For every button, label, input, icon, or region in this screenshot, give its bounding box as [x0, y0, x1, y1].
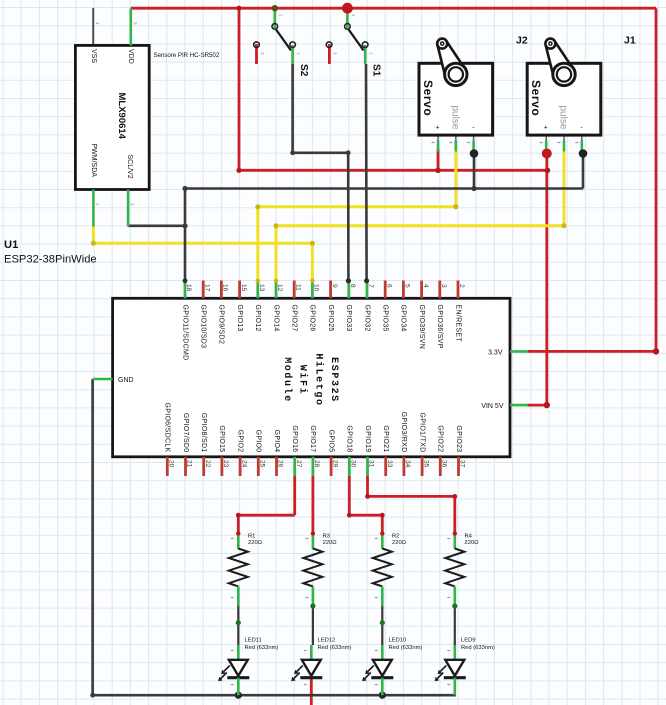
wire black GND bus drop to pin18 — [184, 189, 187, 281]
svg-text:SCL/V2: SCL/V2 — [126, 155, 133, 179]
pin GND (left side) — [93, 378, 113, 381]
svg-text:LED9: LED9 — [461, 638, 476, 644]
node dots on wired pins — [183, 278, 188, 283]
svg-text:220Ω: 220Ω — [248, 540, 263, 546]
R2 tiny terminal marks — [375, 538, 378, 540]
svg-text:VDD: VDD — [127, 49, 134, 64]
wire black ESP32 GND down left side — [91, 379, 94, 695]
wire red unused throw stub of S2 — [255, 44, 258, 64]
wire red right-edge vertical to 3.3V — [655, 8, 658, 351]
svg-text:LED12: LED12 — [318, 638, 336, 644]
pin 25 GPIO0 — [257, 457, 260, 476]
svg-text:GPIO33: GPIO33 — [345, 305, 352, 332]
LED LED10 Red 633nm — [381, 645, 384, 661]
wire red VIN 5V horizontal — [527, 404, 547, 407]
svg-text:GPIO18: GPIO18 — [346, 425, 353, 452]
LED10 triangle — [373, 660, 392, 676]
wire red horizontal y=170 to servo J2 + and J1 + — [239, 169, 547, 172]
svg-text:4: 4 — [422, 284, 429, 288]
svg-text:Sensore PIR HC-SR502: Sensore PIR HC-SR502 — [154, 52, 220, 59]
pin 3 GPIO36/SVP — [438, 281, 441, 299]
svg-text:VIN 5V: VIN 5V — [481, 403, 504, 410]
svg-text:GPIO16: GPIO16 — [291, 425, 298, 452]
wire yellow MLX PWM/SDA to GPIO26 pin10 — [92, 226, 95, 244]
svg-text:R2: R2 — [392, 534, 399, 540]
svg-text:Red (633nm): Red (633nm) — [461, 645, 495, 651]
svg-text:GPIO27: GPIO27 — [291, 305, 298, 332]
wire red GPIO18 pin30 to R2 — [348, 476, 351, 515]
servo J2 horn tip hole — [437, 39, 447, 49]
junction red rail x=239 — [236, 6, 241, 11]
pin 11 GPIO27 — [293, 281, 296, 299]
pin 22 GPIO8/SD1 — [202, 457, 205, 476]
switch S2 lever — [276, 30, 291, 51]
junction S2 on rail — [272, 5, 278, 11]
wire yellow GPIO12 pin13 to servo J2 pulse — [256, 207, 259, 281]
LED LED11 Red 633nm — [237, 645, 240, 661]
wire black J2 - drop — [473, 151, 476, 189]
svg-text:GPIO23: GPIO23 — [455, 425, 462, 452]
wire red LED12 cathode to sheet edge — [310, 678, 313, 705]
svg-text:13: 13 — [258, 284, 265, 292]
wire black MLX SCL/V2 to GND net — [128, 225, 185, 228]
svg-text:GPIO8/SD1: GPIO8/SD1 — [200, 413, 207, 453]
svg-text:33: 33 — [386, 460, 393, 468]
MLX90614 pin SCL/V2 lead — [127, 190, 130, 227]
wire black bottom ground rail — [93, 694, 456, 697]
pin 36 GPIO22 — [439, 457, 442, 476]
LED12 triangle — [302, 660, 321, 676]
wire red J1 + / VIN 5V vertical — [545, 154, 548, 406]
svg-text:GPIO5: GPIO5 — [327, 430, 334, 453]
switch S1 unused terminal — [326, 42, 332, 48]
junction J1 - terminal — [579, 149, 588, 158]
switch S1 lever — [349, 30, 364, 51]
svg-text:2: 2 — [458, 284, 465, 288]
svg-text:37: 37 — [459, 460, 466, 468]
svg-text:35: 35 — [422, 460, 429, 468]
LED9 cathode stub — [453, 678, 456, 696]
junction red corner 547,170 — [545, 168, 551, 174]
R4 tiny terminal marks — [447, 538, 450, 540]
pin 31 GPIO19 — [366, 457, 369, 476]
svg-text:GPIO3/RXD: GPIO3/RXD — [400, 412, 407, 453]
pin 10 GPIO26 — [311, 281, 314, 299]
resistor R2 220ohm — [381, 534, 384, 550]
wire black J1 - drop — [582, 151, 585, 189]
svg-text:Red (633nm): Red (633nm) — [245, 645, 279, 651]
pin 26 GPIO4 — [275, 457, 278, 476]
svg-text:R1: R1 — [248, 534, 255, 540]
svg-text:LED11: LED11 — [245, 638, 262, 644]
svg-text:8: 8 — [349, 284, 356, 288]
svg-text:26: 26 — [277, 460, 284, 468]
MLX90614 pin VDD (green, to 3.3V rail) — [130, 8, 133, 45]
LED12 cathode bar — [300, 676, 322, 679]
pin 21 GPIO7/SD0 — [184, 457, 187, 476]
svg-text:+: + — [544, 125, 548, 132]
junction yellow bendpoints — [91, 241, 96, 246]
svg-text:MLX90614: MLX90614 — [116, 93, 127, 140]
svg-text:23: 23 — [222, 460, 229, 468]
LED10 emission arrows — [365, 666, 374, 679]
switch S1 throw stub (green) — [364, 45, 367, 64]
svg-text:220Ω: 220Ω — [465, 540, 480, 546]
LED9 cathode bar — [444, 676, 466, 679]
svg-text:R4: R4 — [465, 534, 473, 540]
servo J2 body — [419, 63, 493, 135]
svg-text:GPIO35: GPIO35 — [382, 305, 389, 332]
pin 28 GPIO17 — [311, 457, 314, 476]
svg-text:GPIO14: GPIO14 — [272, 305, 279, 332]
svg-text:25: 25 — [259, 460, 266, 468]
svg-text:GPIO12: GPIO12 — [254, 305, 261, 332]
svg-text:GPIO39/SVN: GPIO39/SVN — [418, 305, 425, 350]
svg-text:GPIO11/SDCMD: GPIO11/SDCMD — [181, 305, 188, 361]
LED11 tiny terminal marks — [231, 650, 234, 652]
pin 3.3V (right side) — [510, 350, 528, 353]
pin 15 GPIO13 — [238, 281, 241, 299]
svg-text:3.3V: 3.3V — [488, 350, 503, 357]
svg-text:11: 11 — [294, 284, 301, 291]
switch S1 top stub (green) — [346, 8, 349, 28]
svg-text:Red (633nm): Red (633nm) — [318, 645, 352, 651]
svg-text:pulse: pulse — [558, 106, 569, 130]
svg-text:5: 5 — [404, 284, 411, 288]
svg-text:220Ω: 220Ω — [392, 540, 407, 546]
svg-text:GPIO7/SD0: GPIO7/SD0 — [182, 413, 189, 453]
LED LED9 Red 633nm — [453, 645, 456, 661]
LED9 triangle — [445, 660, 464, 676]
pin 8 GPIO33 — [347, 281, 350, 299]
servo J1 horn arm — [546, 42, 574, 79]
svg-text:27: 27 — [295, 460, 302, 468]
wire black switch S1 to GPIO32 pin7 — [365, 64, 368, 281]
svg-text:Servo: Servo — [529, 80, 543, 116]
svg-text:3: 3 — [440, 284, 447, 288]
svg-text:10: 10 — [313, 284, 320, 292]
LED11 cathode stub — [237, 678, 240, 696]
svg-text:GPIO9/SD2: GPIO9/SD2 — [218, 305, 225, 345]
switch S1 hinge terminal — [345, 24, 351, 30]
pin 30 GPIO18 — [348, 457, 351, 476]
LED11 cathode bar — [227, 676, 249, 679]
svg-text:31: 31 — [368, 460, 375, 468]
svg-text:R3: R3 — [323, 534, 330, 540]
junction red corner 3.3V right edge — [653, 348, 659, 354]
pin 13 GPIO12 — [256, 281, 259, 299]
svg-text:16: 16 — [222, 284, 229, 292]
svg-text:GPIO2: GPIO2 — [236, 430, 243, 453]
LED12 tiny terminal marks — [304, 650, 307, 652]
svg-text:EN/RESET: EN/RESET — [454, 305, 461, 343]
pin 9 GPIO25 — [329, 281, 332, 299]
svg-text:ESP32-38PinWide: ESP32-38PinWide — [4, 254, 97, 266]
svg-text:4: 4 — [95, 22, 100, 25]
pin 23 GPIO15 — [220, 457, 223, 476]
switch S2 throw stub (green) — [291, 45, 294, 64]
svg-text:GPIO0: GPIO0 — [255, 430, 262, 453]
LED9 tiny terminal marks — [447, 650, 450, 652]
svg-text:29: 29 — [331, 460, 338, 468]
wire red J2 + drop — [437, 149, 440, 170]
pin 35 GPIO1/TXD — [421, 457, 424, 476]
svg-text:GPIO15: GPIO15 — [218, 425, 225, 452]
svg-text:GPIO36/SVP: GPIO36/SVP — [436, 305, 443, 349]
svg-text:GPIO4: GPIO4 — [273, 430, 280, 453]
svg-text:+: + — [436, 125, 440, 132]
svg-text:LED10: LED10 — [389, 638, 407, 644]
servo J2 pin leads — [437, 135, 439, 141]
svg-text:20: 20 — [168, 460, 175, 468]
junction black dots — [182, 186, 187, 191]
svg-text:15: 15 — [240, 284, 247, 292]
servo J1 horn tip hole — [545, 39, 555, 49]
IC U1 ESP32-38PinWide body — [113, 298, 510, 457]
pin 27 GPIO16 — [293, 457, 296, 476]
svg-text:34: 34 — [404, 460, 411, 468]
svg-text:GPIO10/SD3: GPIO10/SD3 — [200, 305, 207, 349]
wire red unused throw stub of S1 — [328, 44, 331, 64]
wire red 3.3V pin horizontal — [527, 350, 656, 353]
svg-text:18: 18 — [185, 284, 192, 292]
wire red GPIO16 pin27 to R1 — [293, 476, 296, 515]
svg-text:GPIO17: GPIO17 — [309, 425, 316, 452]
svg-text:2: 2 — [95, 203, 100, 206]
svg-text:pulse: pulse — [449, 106, 460, 130]
servo J1 pin leads — [545, 135, 547, 141]
svg-text:S1: S1 — [371, 64, 382, 77]
wire red vertical from rail x=239 — [238, 8, 241, 170]
svg-text:220Ω: 220Ω — [323, 540, 338, 546]
junction J1 + terminal (big red) — [542, 149, 552, 159]
pin 7 GPIO32 — [366, 281, 369, 299]
pin 37 GPIO23 — [457, 457, 460, 476]
LED10 cathode stub — [381, 678, 384, 696]
sensor U? MLX90614 (Sensore PIR HC-SR502) body — [75, 45, 149, 189]
svg-text:J2: J2 — [516, 35, 528, 47]
MLX90614 pin PWM/SDA lead — [92, 190, 95, 227]
pin 34 GPIO3/RXD — [402, 457, 405, 476]
wire red GPIO17 pin28 to R3 — [311, 476, 314, 534]
svg-text:GND: GND — [118, 377, 134, 384]
junction red J2 + at y=170 — [435, 168, 441, 174]
LED11 emission arrows — [221, 666, 230, 679]
servo J2 horn arm — [438, 42, 466, 79]
svg-text:17: 17 — [203, 284, 210, 292]
wire red GPIO19 pin31 to R4 — [366, 476, 369, 496]
svg-text:1: 1 — [130, 203, 135, 206]
svg-text:GPIO1/TXD: GPIO1/TXD — [418, 412, 425, 452]
wire black MLX VSS stub (unconnected) — [92, 8, 94, 45]
svg-text:GPIO32: GPIO32 — [363, 305, 370, 332]
LED12 emission arrows — [294, 666, 303, 679]
LED LED12 Red 633nm — [310, 645, 313, 661]
servo J1 horn hub — [553, 63, 575, 85]
svg-text:GPIO21: GPIO21 — [382, 425, 389, 452]
switch S2 top stub (green) — [273, 8, 276, 28]
wire black switch S2 to GPIO33 pin8 — [291, 64, 294, 153]
pin 5 GPIO34 — [402, 281, 405, 299]
svg-text:GPIO34: GPIO34 — [400, 305, 407, 332]
pin 2 EN/RESET — [457, 281, 460, 299]
svg-text:GPIO22: GPIO22 — [437, 425, 444, 452]
LED10 tiny terminal marks — [375, 650, 378, 652]
servo J2 horn hub — [445, 63, 467, 85]
svg-text:U1: U1 — [4, 239, 18, 251]
svg-text:GPIO19: GPIO19 — [364, 425, 371, 452]
LED11 triangle — [229, 660, 248, 676]
svg-text:WiFi: WiFi — [297, 365, 309, 395]
R1 tiny terminal marks — [231, 538, 234, 540]
pin 6 GPIO35 — [384, 281, 387, 299]
switch S2 hinge terminal — [272, 24, 278, 30]
svg-text:HiLetgo: HiLetgo — [312, 353, 324, 406]
LED10 cathode bar — [371, 676, 393, 679]
switch S2 throw terminal — [290, 42, 296, 48]
svg-text:36: 36 — [441, 460, 448, 468]
svg-text:12: 12 — [276, 284, 283, 292]
R3 tiny terminal marks — [305, 538, 308, 540]
svg-text:Servo: Servo — [421, 80, 435, 116]
resistor R1 220ohm — [237, 534, 240, 550]
svg-text:9: 9 — [331, 284, 338, 288]
svg-text:21: 21 — [186, 460, 193, 468]
svg-text:24: 24 — [240, 460, 247, 468]
svg-text:ESP32S: ESP32S — [328, 357, 339, 403]
svg-text:J1: J1 — [624, 35, 636, 47]
pin 24 GPIO2 — [239, 457, 242, 476]
servo J2 tiny pin marks — [432, 142, 435, 144]
switch S2 unused terminal — [254, 42, 260, 48]
servo J1 tiny pin marks — [540, 142, 543, 144]
svg-text:GPIO26: GPIO26 — [309, 305, 316, 332]
svg-text:30: 30 — [350, 460, 357, 468]
svg-text:VSS: VSS — [90, 49, 97, 63]
junction J2 - terminal — [470, 149, 479, 158]
svg-text:Module: Module — [281, 357, 293, 403]
resistor R3 220ohm — [312, 534, 315, 550]
pin 33 GPIO21 — [384, 457, 387, 476]
pin 29 GPIO5 — [330, 457, 333, 476]
svg-text:6: 6 — [385, 284, 392, 288]
pin 16 GPIO9/SD2 — [220, 281, 223, 299]
junction red VIN 5V — [544, 402, 550, 408]
svg-text:PWM/SDA: PWM/SDA — [90, 144, 97, 178]
servo J1 body — [527, 63, 601, 135]
svg-text:GPIO13: GPIO13 — [236, 305, 243, 332]
svg-text:Red (633nm): Red (633nm) — [389, 645, 423, 651]
junction red corner 239,170 — [236, 168, 241, 173]
wire yellow GPIO14 pin12 to servo J1 pulse — [275, 226, 278, 281]
resistor R4 220ohm — [453, 534, 456, 550]
node dots between resistors and LEDs — [236, 620, 241, 625]
svg-text:28: 28 — [313, 460, 320, 468]
wire red 3.3V top rail — [131, 7, 656, 10]
junction S1 on rail (big) — [342, 3, 353, 14]
switch S1 throw terminal — [362, 42, 368, 48]
pin 20 GPIO6/SDCLK — [166, 457, 169, 476]
svg-text:S2: S2 — [298, 64, 309, 77]
pin 17 GPIO10/SD3 — [202, 281, 205, 299]
pin 12 GPIO14 — [275, 281, 278, 299]
junction red bends of LED nets — [236, 513, 241, 518]
wire black servo ground bus y=188.5 — [185, 187, 583, 190]
wire black resistor-to-LED links — [237, 605, 239, 650]
LED9 emission arrows — [437, 666, 446, 679]
pin VIN 5V (right side) — [510, 404, 528, 407]
svg-text:22: 22 — [204, 460, 211, 468]
svg-text:7: 7 — [367, 284, 374, 288]
svg-text:3: 3 — [133, 22, 138, 25]
pin 18 GPIO11/SDCMD — [184, 281, 187, 299]
svg-text:GPIO25: GPIO25 — [327, 305, 334, 332]
pin 4 GPIO39/SVN — [420, 281, 423, 299]
svg-text:GPIO6/SDCLK: GPIO6/SDCLK — [164, 403, 171, 453]
